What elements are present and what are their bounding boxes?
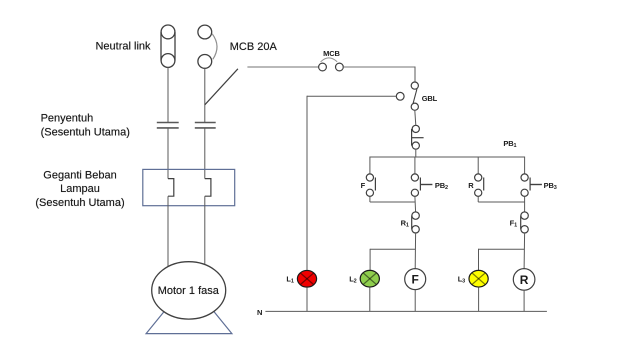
wire neutral to motor	[167, 196, 169, 268]
wire rail to F contact	[369, 157, 371, 175]
MCB control contact circles	[319, 63, 344, 71]
start push button PB3	[521, 174, 542, 197]
wire coil R to N	[523, 290, 525, 311]
wire down to lamp L2	[369, 249, 371, 271]
lamp L1 red	[297, 270, 316, 287]
wire rail to PB2	[414, 157, 416, 175]
lamp L3 yellow	[469, 270, 488, 287]
overload relay box	[143, 169, 235, 205]
MCB 20A arc	[212, 34, 217, 60]
wire lamp bar right	[479, 248, 525, 250]
svg-text:MCB: MCB	[323, 49, 340, 58]
svg-text:N: N	[257, 308, 262, 317]
wire GBL to PB1	[415, 110, 416, 125]
holding contact F	[366, 174, 375, 197]
motor M 1 fasa	[152, 262, 226, 319]
wire live to control circuit	[247, 66, 318, 68]
wire MCB to corner	[343, 66, 415, 68]
svg-text:(Sesentuh Utama): (Sesentuh Utama)	[35, 197, 124, 209]
wire lamp L1 rail	[306, 96, 308, 271]
svg-text:GBL: GBL	[422, 94, 438, 103]
neutral link fuse holder	[161, 25, 175, 67]
wire coil F to N	[414, 290, 416, 312]
svg-text:F: F	[412, 273, 419, 287]
wire neutral column	[167, 67, 169, 122]
svg-text:MCB 20A: MCB 20A	[230, 41, 278, 53]
start push button PB2	[411, 174, 432, 197]
interlock contact F1	[521, 212, 529, 233]
coil R	[513, 269, 535, 291]
svg-text:Geganti Beban: Geganti Beban	[43, 169, 116, 181]
svg-text:R: R	[468, 181, 474, 190]
svg-text:R: R	[520, 273, 529, 287]
wire L3 to N	[478, 287, 480, 311]
wire down to lamp L3	[478, 249, 480, 271]
wire PB2 to R1	[414, 196, 417, 212]
wire PB1 to rail	[415, 149, 417, 157]
wire R to sub rail	[477, 196, 479, 202]
MCB control contact arc	[321, 58, 338, 62]
svg-text:Neutral link: Neutral link	[95, 41, 151, 53]
wire corner down to GBL	[414, 67, 416, 83]
wire F to sub rail	[369, 196, 371, 202]
sub rail R PB3	[478, 201, 524, 203]
sub rail F PB2	[370, 201, 415, 203]
wire rail to R contact	[477, 157, 479, 175]
node branch terminal	[396, 92, 404, 100]
coil F	[405, 269, 426, 290]
MCB 20A breaker terminals	[198, 25, 212, 68]
svg-text:Motor 1 fasa: Motor 1 fasa	[158, 285, 220, 297]
fuse GBL top terminal	[411, 82, 418, 89]
wire F1 to coil R	[523, 233, 526, 269]
svg-text:Lampau: Lampau	[60, 183, 100, 195]
wire L1 to N	[306, 287, 308, 311]
svg-text:Penyentuh: Penyentuh	[41, 113, 94, 125]
wire PB3 to F1	[524, 196, 526, 212]
overload heater element right	[205, 179, 211, 197]
fuse GBL blade	[413, 89, 417, 103]
motor base stand	[146, 281, 232, 334]
wire rail to PB3	[524, 157, 526, 175]
wire branch to lamp rail	[307, 95, 396, 97]
svg-text:F: F	[361, 181, 366, 190]
wire R1 to coil F	[414, 233, 416, 269]
main contact left (Penyentuh)	[157, 123, 179, 128]
wire live column	[204, 68, 206, 122]
wire lamp bar left	[370, 248, 415, 250]
interlock contact R1	[412, 212, 420, 233]
svg-text:(Sesentuh Utama): (Sesentuh Utama)	[41, 127, 130, 139]
wire L2 to N	[369, 287, 371, 311]
wire live to motor	[204, 196, 206, 268]
holding contact R	[475, 174, 484, 197]
lamp L2 green	[360, 270, 379, 287]
overload heater element left	[168, 179, 174, 197]
wire neutral into overload	[167, 128, 169, 179]
fuse GBL bottom terminal	[411, 103, 418, 110]
stop push button contact	[412, 125, 424, 149]
MCB switch blade	[205, 69, 238, 105]
neutral rail N	[265, 310, 547, 312]
control rail	[370, 156, 525, 158]
main contact right (Penyentuh)	[195, 123, 216, 128]
wire live into overload	[204, 128, 206, 179]
